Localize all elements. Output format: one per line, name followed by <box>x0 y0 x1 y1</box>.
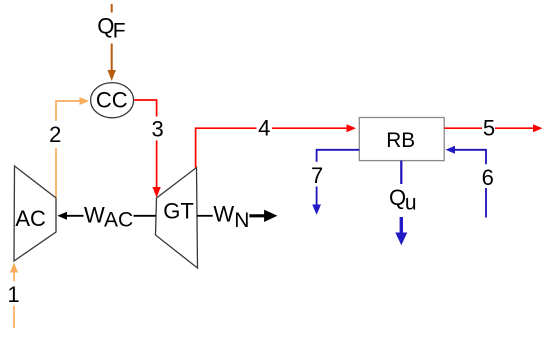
svg-text:AC: AC <box>15 206 46 231</box>
label node 4 <box>258 118 271 137</box>
svg-text:Q: Q <box>389 185 406 210</box>
arrowhead stream 7 <box>312 205 321 215</box>
wire stream 3 (CC to GT, red) <box>134 100 156 190</box>
wire heat input QF (brown) <box>111 4 113 73</box>
combustor CC <box>91 83 134 118</box>
wire stream 1 (air inlet, orange) <box>13 268 15 328</box>
wire net work WN (bold black arrow out of GT) <box>197 215 213 217</box>
svg-text:3: 3 <box>151 117 163 142</box>
svg-text:W: W <box>213 202 234 227</box>
svg-text:RB: RB <box>386 129 415 152</box>
wire stream 4 (GT exhaust to RB, red) <box>196 128 348 167</box>
arrowhead stream 4 <box>347 124 357 132</box>
svg-text:GT: GT <box>163 198 194 223</box>
svg-text:1: 1 <box>7 282 19 307</box>
wire shaft work WAC (black arrow into AC) <box>60 215 84 217</box>
compressor AC <box>14 166 56 261</box>
wire stream 6 (water into RB, blue) <box>453 150 486 218</box>
turbine GT <box>156 168 198 269</box>
arrowhead stream 3 <box>152 187 160 198</box>
label node 5 <box>483 118 495 137</box>
boiler RB <box>359 118 444 161</box>
wire WAC to GT <box>134 215 156 217</box>
svg-text:W: W <box>84 202 105 227</box>
wire stream 7 (steam out of RB, blue) <box>317 150 360 207</box>
arrowhead stream 2 <box>80 97 90 105</box>
svg-text:N: N <box>234 209 249 232</box>
svg-text:2: 2 <box>49 122 61 147</box>
arrowhead WN <box>264 210 277 222</box>
arrowhead WAC <box>57 212 67 220</box>
arrowhead QF <box>108 70 116 81</box>
svg-text:CC: CC <box>96 88 128 113</box>
wire useful heat Qu (bold blue arrow down from RB) <box>400 161 402 184</box>
svg-text:u: u <box>405 191 417 214</box>
svg-text:7: 7 <box>311 163 323 188</box>
wire stream 5 (RB gas outlet, red) <box>444 127 534 129</box>
svg-text:6: 6 <box>482 165 494 190</box>
svg-text:F: F <box>113 20 126 43</box>
arrowhead stream 1 <box>10 263 18 273</box>
wire stream 2 (compressor outlet to CC, orange) <box>56 101 81 198</box>
arrowhead stream 5 <box>533 124 542 132</box>
arrowhead Qu <box>395 233 407 246</box>
svg-text:4: 4 <box>258 116 270 141</box>
svg-text:5: 5 <box>483 116 495 141</box>
arrowhead stream 6 <box>446 146 456 154</box>
svg-text:AC: AC <box>104 209 133 232</box>
